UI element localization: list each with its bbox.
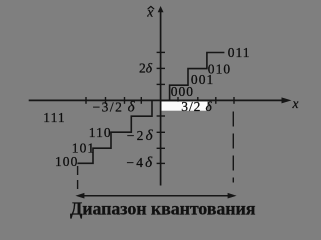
left dashed boundary	[77, 166, 79, 189]
quantization range line	[79, 195, 233, 197]
white label box behind 3/2 delta	[162, 102, 208, 111]
x-axis arrowhead	[282, 97, 292, 103]
svg-text:010: 010	[208, 61, 231, 76]
y ticks negative	[157, 115, 165, 117]
svg-text:x: x	[292, 96, 299, 111]
svg-text:011: 011	[228, 45, 251, 60]
staircase positive	[170, 53, 225, 101]
range right arrowhead	[228, 193, 237, 199]
svg-text:2δ: 2δ	[139, 60, 153, 75]
range left arrowhead	[75, 193, 84, 199]
x ticks positive	[177, 97, 179, 104]
svg-text:−4δ: −4δ	[126, 155, 154, 171]
x ticks negative	[85, 97, 87, 104]
staircase negative	[77, 100, 152, 163]
svg-text:110: 110	[89, 125, 112, 140]
svg-text:x: x	[146, 4, 153, 19]
y-axis arrowhead	[158, 6, 164, 12]
svg-text:Диапазон квантования: Диапазон квантования	[70, 199, 256, 219]
svg-text:3/2 δ: 3/2 δ	[181, 99, 212, 114]
x-axis	[29, 99, 288, 101]
svg-text:−3/2 δ: −3/2 δ	[93, 99, 137, 115]
y ticks positive	[157, 51, 165, 53]
y-axis	[160, 10, 162, 186]
right dashed boundary	[232, 112, 234, 183]
svg-text:111: 111	[43, 110, 65, 125]
svg-text:100: 100	[55, 154, 78, 169]
